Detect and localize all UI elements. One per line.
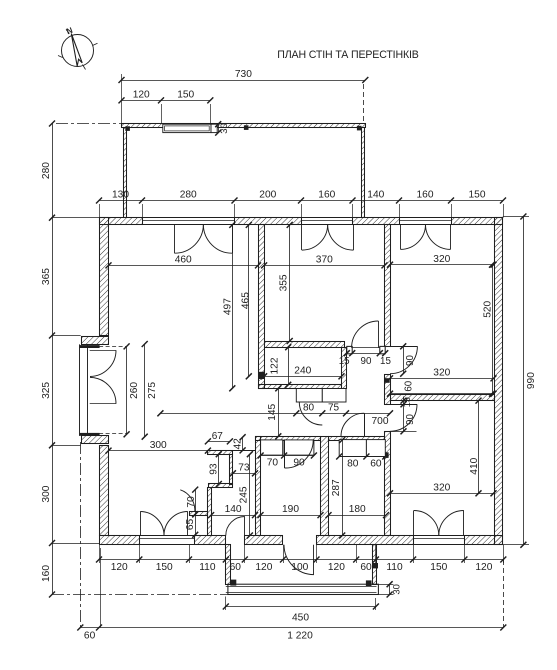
- bay window sashes: [90, 350, 116, 352]
- bottom wall segment: [465, 536, 503, 545]
- north arrow: [62, 35, 94, 67]
- door room180: [339, 440, 366, 457]
- svg-text:497: 497: [223, 298, 234, 315]
- wall A (460/370): [259, 225, 265, 389]
- step wall C: [209, 484, 233, 488]
- dim 245: [249, 454, 251, 535]
- svg-text:73: 73: [238, 463, 250, 474]
- svg-text:150: 150: [177, 90, 194, 101]
- corridor right wall: [256, 437, 261, 536]
- dim 465: [248, 225, 250, 376]
- room240 top wall: [265, 342, 345, 348]
- svg-text:15: 15: [339, 356, 350, 367]
- svg-text:120: 120: [111, 562, 128, 573]
- dim 520: [492, 265, 494, 394]
- ext bottom row: [375, 545, 377, 563]
- dim 990: [523, 217, 525, 545]
- column marker tb2: [366, 580, 372, 586]
- ext dashed 1220 right: [503, 560, 505, 628]
- bay top ledge: [82, 337, 109, 345]
- room240 right wall: [342, 348, 347, 389]
- wall B lower: [385, 432, 391, 536]
- ext top row: [352, 204, 354, 218]
- svg-text:190: 190: [282, 504, 299, 515]
- line door lower bottom edge: [390, 431, 417, 433]
- terrace right wall: [362, 128, 365, 218]
- column marker: [357, 126, 362, 131]
- top wall segment: [452, 218, 503, 225]
- svg-text:90: 90: [361, 356, 372, 367]
- dim 70 door: [195, 490, 197, 515]
- column marker wallB1: [385, 378, 390, 383]
- ext top row: [301, 204, 303, 218]
- step wall D: [208, 488, 212, 536]
- window bottom wall: [413, 544, 464, 546]
- svg-text:140: 140: [367, 190, 384, 201]
- ext dashed 730 right: [363, 84, 365, 124]
- dim left column: [52, 124, 54, 595]
- dim 93: [218, 454, 220, 484]
- dim 90 bath upper line: [403, 346, 405, 373]
- svg-text:320: 320: [433, 254, 450, 265]
- top wall segment: [100, 218, 143, 225]
- svg-text:450: 450: [292, 613, 309, 624]
- svg-text:70: 70: [267, 458, 279, 469]
- svg-text:287: 287: [331, 479, 342, 496]
- svg-text:160: 160: [41, 565, 52, 582]
- door room190: [261, 440, 283, 455]
- ext bottom row: [189, 545, 191, 563]
- ext right bottom: [503, 544, 529, 546]
- dim 700: [160, 413, 390, 415]
- door bath lower: [390, 404, 417, 406]
- column marker tb3: [373, 563, 378, 568]
- terrace-b right wall: [373, 545, 377, 585]
- doorway 73 threshold: [233, 450, 255, 452]
- dim 145: [278, 388, 280, 436]
- dim 240: [264, 376, 341, 378]
- dim 1220: [80, 627, 503, 629]
- svg-text:160: 160: [417, 190, 434, 201]
- dim 190: [261, 515, 321, 517]
- svg-text:80: 80: [347, 459, 359, 470]
- dim 320 low: [390, 493, 494, 495]
- dim 80 60: [339, 456, 385, 458]
- svg-text:100: 100: [291, 562, 308, 573]
- svg-text:410: 410: [469, 457, 480, 474]
- window top wall: [142, 217, 235, 219]
- room240 bottom wall: [259, 385, 342, 389]
- door top D3: [400, 224, 402, 249]
- terrace-b left wall: [226, 545, 231, 585]
- bay window: [79, 344, 81, 436]
- svg-text:320: 320: [433, 483, 450, 494]
- svg-text:67: 67: [212, 431, 224, 442]
- ext top row: [451, 204, 453, 218]
- window bottom wall: [139, 544, 194, 546]
- dim 410: [478, 401, 480, 494]
- ext bottom row: [316, 545, 318, 563]
- door bottom B2: [413, 511, 415, 536]
- dim top row: [99, 200, 503, 202]
- svg-text:60: 60: [84, 631, 96, 642]
- room180 top wall: [329, 437, 385, 441]
- column marker: [244, 125, 249, 130]
- column marker tb1: [230, 580, 236, 586]
- svg-text:60: 60: [230, 562, 242, 573]
- wall B mid: [385, 375, 391, 405]
- dim 260 bay: [126, 346, 128, 434]
- svg-text:30: 30: [392, 584, 403, 595]
- dim 275 bay: [144, 344, 146, 437]
- dim 320 mid: [390, 378, 494, 380]
- door bottom B1: [140, 512, 142, 536]
- svg-text:200: 200: [259, 190, 276, 201]
- ext top row: [142, 204, 144, 218]
- ext 730 left: [121, 74, 123, 124]
- door room240-hall: [296, 389, 322, 403]
- dim 90 bath lower line: [403, 397, 405, 432]
- dim 180: [329, 515, 387, 517]
- svg-text:30: 30: [219, 123, 230, 134]
- svg-text:300: 300: [150, 440, 167, 451]
- ext left 543: [52, 543, 99, 545]
- bottom wall segment: [245, 536, 283, 545]
- right wall: [495, 218, 503, 545]
- ext bottom row: [356, 545, 358, 563]
- svg-text:120: 120: [475, 562, 492, 573]
- step wall B: [230, 455, 233, 485]
- bay bottom ledge: [82, 436, 109, 444]
- svg-text:42: 42: [232, 438, 243, 450]
- door bath upper: [390, 346, 417, 348]
- wall B upper: [385, 225, 391, 347]
- ext 1220 left: [100, 548, 102, 628]
- svg-text:370: 370: [316, 255, 333, 266]
- dim 120 150: [122, 100, 211, 102]
- svg-text:120: 120: [255, 562, 272, 573]
- svg-text:1 220: 1 220: [287, 631, 313, 642]
- ext 450 b: [375, 598, 377, 610]
- svg-text:15: 15: [380, 356, 391, 367]
- window top wall: [301, 217, 353, 219]
- svg-text:140: 140: [225, 504, 242, 515]
- ext bottom row: [139, 545, 141, 563]
- svg-text:90: 90: [293, 458, 305, 469]
- door top D2: [301, 224, 303, 250]
- svg-text:320: 320: [433, 368, 450, 379]
- dim 287: [342, 440, 344, 536]
- svg-text:160: 160: [318, 190, 335, 201]
- svg-text:150: 150: [430, 562, 447, 573]
- ext bottom row: [413, 545, 415, 563]
- dim 30 terrace beam: [218, 124, 220, 132]
- ext bottom row: [99, 545, 101, 563]
- top wall segment: [235, 218, 302, 225]
- ext bottom row: [464, 545, 466, 563]
- step wall G: [190, 512, 208, 516]
- svg-text:355: 355: [279, 274, 290, 291]
- ext t2b: [210, 104, 212, 124]
- ext bottom row: [244, 545, 246, 563]
- svg-text:240: 240: [294, 366, 311, 377]
- door top D1: [174, 224, 176, 253]
- dim bottom row: [99, 559, 503, 561]
- terrace-b slab: [228, 584, 379, 594]
- ext left 218: [52, 217, 99, 219]
- column marker: [125, 126, 130, 131]
- wall 190/180: [321, 437, 329, 536]
- room190 top wall: [256, 437, 321, 441]
- svg-text:180: 180: [349, 504, 366, 515]
- door pantry: [180, 490, 195, 512]
- svg-text:150: 150: [156, 562, 173, 573]
- ext bottom row: [503, 545, 505, 563]
- svg-text:65: 65: [185, 519, 196, 531]
- svg-text:122: 122: [270, 357, 281, 374]
- door exterior bottom: [313, 545, 315, 575]
- dim 355: [289, 225, 291, 341]
- svg-text:150: 150: [469, 190, 486, 201]
- svg-text:70: 70: [186, 496, 197, 508]
- left wall upper: [100, 218, 109, 336]
- svg-text:90: 90: [405, 355, 416, 366]
- dim 70 90: [261, 455, 314, 457]
- bottom wall segment: [100, 536, 140, 545]
- svg-text:280: 280: [41, 162, 52, 179]
- svg-text:365: 365: [41, 268, 52, 285]
- door jambs 15-90-15: [347, 346, 352, 353]
- svg-text:60: 60: [370, 459, 382, 470]
- dim 60 line: [390, 393, 494, 395]
- ext 450 a: [225, 597, 227, 611]
- svg-text:280: 280: [180, 190, 197, 201]
- ext bottom row: [225, 545, 227, 563]
- wall bath/room410: [391, 395, 495, 401]
- svg-text:110: 110: [386, 562, 403, 573]
- dim 497: [232, 225, 234, 388]
- terrace top wall: [122, 124, 366, 128]
- svg-text:120: 120: [328, 562, 345, 573]
- dim 122: [288, 347, 290, 385]
- ext t2a: [161, 104, 163, 124]
- top wall segment: [353, 218, 400, 225]
- dim 67: [208, 441, 230, 443]
- svg-text:730: 730: [235, 69, 252, 80]
- bottom wall segment: [317, 536, 414, 545]
- axis dashdot left vertical: [80, 442, 82, 628]
- column marker wallB2: [383, 452, 389, 458]
- dim 300: [109, 450, 208, 452]
- terrace beam: [163, 124, 211, 132]
- ext top row: [399, 204, 401, 218]
- dim 42: [242, 437, 244, 450]
- svg-text:60: 60: [403, 380, 414, 391]
- bottom wall segment: [195, 536, 226, 545]
- svg-text:75: 75: [328, 403, 340, 414]
- svg-text:93: 93: [209, 463, 220, 475]
- ext top row: [99, 204, 101, 218]
- column marker wallA: [259, 372, 265, 379]
- dim 450: [226, 606, 376, 608]
- svg-text:80: 80: [303, 403, 315, 414]
- svg-text:990: 990: [526, 372, 537, 389]
- svg-text:15: 15: [402, 397, 412, 407]
- svg-text:90: 90: [405, 414, 416, 425]
- ext bottom row: [283, 545, 285, 563]
- svg-text:465: 465: [241, 292, 252, 309]
- terrace left wall: [124, 128, 127, 218]
- dim 65: [195, 514, 197, 535]
- dim 73: [233, 473, 255, 475]
- svg-text:260: 260: [129, 382, 140, 399]
- svg-text:ПЛАН СТІН ТА ПЕРЕСТІНКІВ: ПЛАН СТІН ТА ПЕРЕСТІНКІВ: [277, 49, 419, 61]
- axis dashdot bottom: [52, 594, 228, 596]
- dim 320 top: [390, 264, 494, 266]
- step wall A: [208, 451, 233, 455]
- svg-text:520: 520: [482, 300, 493, 317]
- ext right top: [503, 216, 529, 218]
- svg-text:60: 60: [360, 562, 372, 573]
- door corridor exit: [244, 517, 246, 536]
- left wall lower: [100, 446, 109, 536]
- window top wall: [399, 217, 451, 219]
- dim 730: [122, 80, 366, 82]
- svg-text:275: 275: [147, 382, 158, 399]
- dim 15 90 15: [344, 350, 350, 356]
- dim 30 terrace-b: [389, 584, 391, 594]
- svg-text:145: 145: [267, 403, 278, 420]
- svg-text:325: 325: [41, 382, 52, 399]
- dim 370: [264, 265, 384, 267]
- ext top row: [234, 204, 236, 218]
- dim 460: [109, 265, 259, 267]
- svg-text:120: 120: [133, 90, 150, 101]
- svg-text:110: 110: [199, 562, 216, 573]
- svg-text:300: 300: [41, 485, 52, 502]
- svg-text:245: 245: [239, 486, 250, 503]
- dim 140: [211, 515, 255, 517]
- ext left 335: [52, 335, 81, 337]
- svg-text:130: 130: [112, 190, 129, 201]
- svg-text:700: 700: [372, 416, 389, 427]
- axis dashdot top-left: [56, 123, 122, 125]
- svg-text:460: 460: [175, 255, 192, 266]
- ext left 445: [52, 445, 81, 447]
- ext top row: [503, 204, 505, 218]
